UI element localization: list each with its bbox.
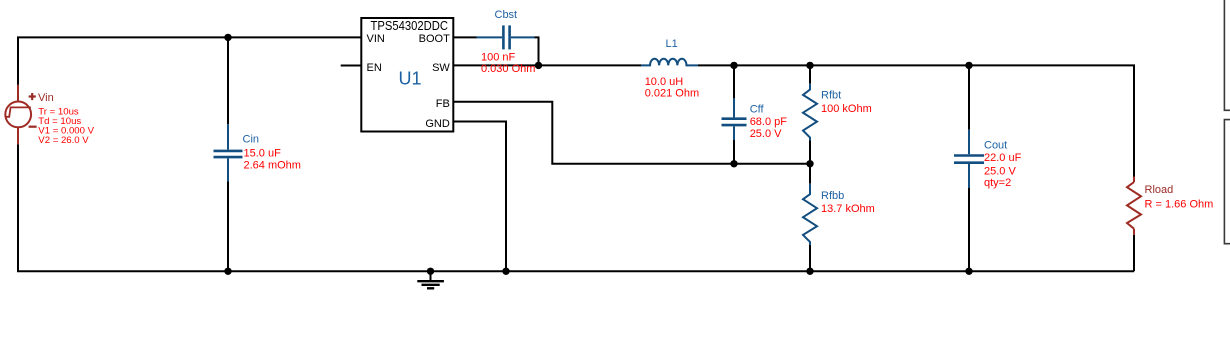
wire Rload bottom to ground rail (1133, 235, 1135, 272)
Cff value labels (750, 116, 788, 140)
wire Cff top branch (733, 65, 735, 98)
wire Cout bottom branch (968, 188, 970, 271)
junction node Cff bottom / FB (730, 160, 737, 167)
capacitor Cbst (477, 25, 535, 49)
svg-text:Cout: Cout (984, 139, 1007, 151)
wire Rfbb bottom branch (809, 245, 811, 272)
svg-text:FB: FB (436, 98, 450, 110)
wire Cout top branch (968, 65, 970, 129)
clipped panel box lower right (1224, 120, 1230, 244)
Cbst value labels (481, 52, 535, 76)
svg-text:Rload: Rload (1145, 184, 1174, 196)
clipped panel box top right (1224, 0, 1230, 110)
svg-text:100 kOhm: 100 kOhm (821, 103, 872, 115)
junction node Rfbt top (806, 62, 813, 69)
svg-text:100 nF: 100 nF (481, 52, 516, 64)
op-amp U1 TPS54302DDC box (361, 18, 453, 132)
svg-text:GND: GND (425, 118, 450, 130)
Cin value labels (244, 147, 301, 171)
svg-text:0.030 Ohm: 0.030 Ohm (481, 63, 535, 75)
inductor L1 (641, 59, 698, 66)
wire L1 to output node and Rload top (698, 65, 1134, 176)
svg-text:Rfbb: Rfbb (821, 190, 844, 202)
junction node Cin top (224, 34, 231, 41)
Cout value labels (984, 152, 1022, 189)
wire FB pin to feedback node (453, 102, 810, 164)
svg-text:Cff: Cff (750, 104, 765, 116)
voltage source Vin (5, 85, 31, 144)
svg-text:68.0 pF: 68.0 pF (750, 116, 788, 128)
ground (417, 271, 444, 288)
wire Rfbt top branch (809, 65, 811, 83)
wire left rail below Vin (17, 144, 19, 271)
svg-text:L1: L1 (666, 38, 678, 50)
junction node Rfbb bottom (806, 268, 813, 275)
svg-text:13.7 kOhm: 13.7 kOhm (821, 203, 875, 215)
svg-text:qty=2: qty=2 (984, 177, 1011, 189)
svg-text:2.64 mOhm: 2.64 mOhm (244, 159, 301, 171)
wire GND pin to ground rail (453, 122, 506, 272)
junction node Cout bottom (965, 268, 972, 275)
svg-text:VIN: VIN (367, 33, 385, 45)
svg-text:V2 = 26.0 V: V2 = 26.0 V (38, 135, 89, 146)
junction node SW/Cbst (535, 62, 542, 69)
resistor Rfbt (803, 84, 817, 141)
wire Cin bottom branch (227, 182, 229, 272)
L1 value labels (645, 76, 699, 100)
wire SW pin to L1 (453, 64, 641, 66)
wire top rail from Vin to U1 VIN pin (18, 37, 361, 85)
svg-text:15.0 uF: 15.0 uF (244, 147, 282, 159)
resistor Rload (1127, 177, 1141, 235)
svg-text:Vin: Vin (38, 92, 54, 104)
wire BOOT pin to Cbst (453, 36, 476, 38)
svg-text:10.0 uH: 10.0 uH (645, 76, 684, 88)
svg-text:Rfbt: Rfbt (821, 89, 841, 101)
wire bottom ground rail (17, 270, 1134, 272)
svg-text:Cin: Cin (243, 134, 260, 146)
capacitor Cin (214, 124, 243, 181)
Vin polarity marks (29, 93, 37, 127)
wire Cin top branch (227, 37, 229, 124)
wire EN pin stub (341, 65, 362, 67)
junction node Cout top (965, 62, 972, 69)
svg-text:25.0 V: 25.0 V (750, 128, 782, 140)
svg-text:SW: SW (432, 62, 450, 74)
svg-text:U1: U1 (398, 69, 421, 89)
junction node ground tap (427, 268, 434, 275)
svg-text:R = 1.66 Ohm: R = 1.66 Ohm (1145, 199, 1214, 211)
capacitor Cout (954, 130, 984, 188)
wire Cff bottom branch (733, 140, 735, 164)
svg-text:BOOT: BOOT (419, 33, 450, 45)
svg-text:TPS54302DDC: TPS54302DDC (371, 18, 449, 33)
svg-text:25.0 V: 25.0 V (984, 165, 1016, 177)
resistor Rfbb (803, 184, 817, 245)
svg-text:0.021 Ohm: 0.021 Ohm (645, 88, 699, 100)
svg-text:22.0 uF: 22.0 uF (984, 152, 1022, 164)
capacitor Cff (722, 98, 747, 140)
junction node Cff top (730, 62, 737, 69)
junction node Rfbt/Rfbb/FB (806, 160, 813, 167)
wire Rfbt bottom branch (809, 140, 811, 164)
svg-text:Cbst: Cbst (495, 9, 518, 21)
svg-text:EN: EN (367, 62, 382, 74)
Vin value labels (38, 106, 94, 146)
junction node Cin bottom (224, 268, 231, 275)
wire Cbst right lead down to SW node (535, 37, 539, 65)
junction node GND wire (502, 268, 509, 275)
wire Rfbb top branch (809, 164, 811, 184)
